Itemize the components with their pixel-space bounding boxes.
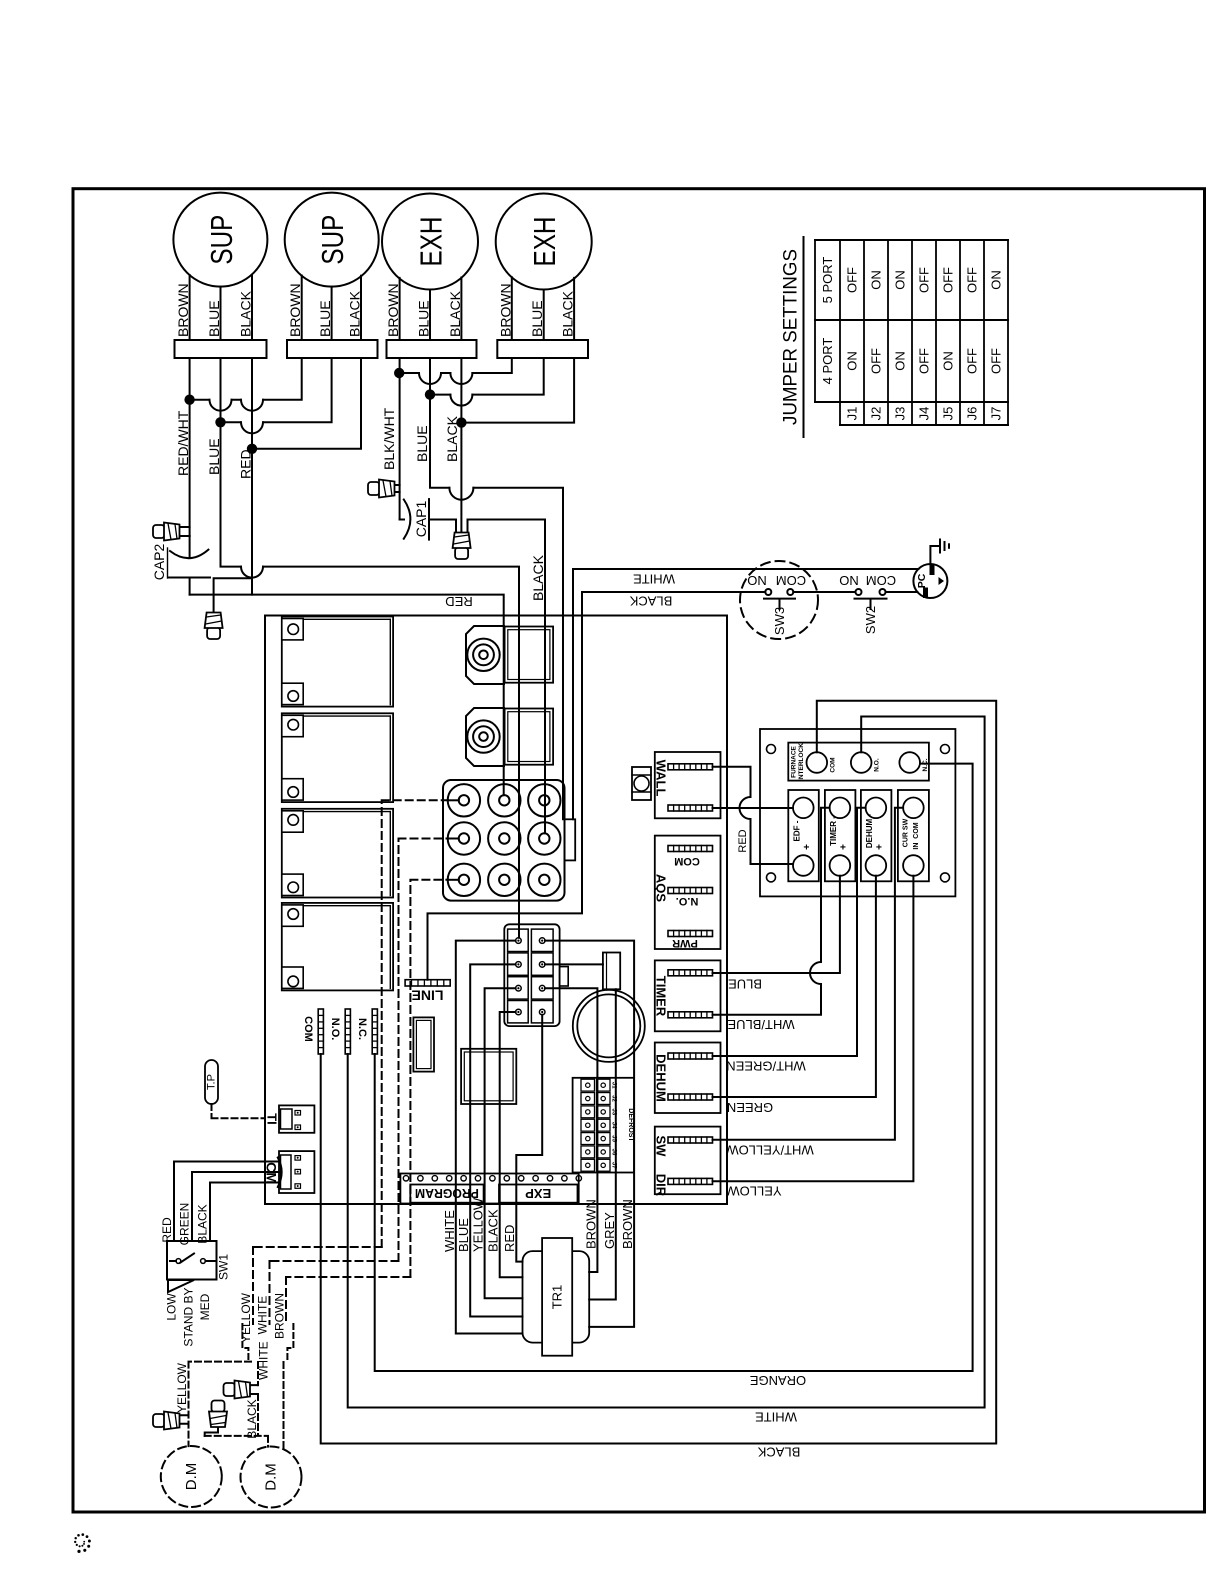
svg-text:INTERLOCK: INTERLOCK: [798, 743, 805, 781]
svg-text:COM: COM: [776, 573, 806, 588]
svg-text:DIR: DIR: [654, 1174, 669, 1197]
labels RED GREEN BLACK: [160, 1203, 210, 1246]
svg-text:RED: RED: [445, 594, 472, 609]
svg-text:J1: J1: [845, 407, 860, 421]
svg-text:BLUE: BLUE: [317, 300, 333, 337]
capacitor CAP2: [151, 536, 210, 580]
svg-text:ON: ON: [893, 270, 908, 290]
wire CUR SW COM to DIR connector YELLOW: [713, 876, 914, 1199]
connector WALL: [654, 752, 721, 818]
svg-text:BLACK: BLACK: [560, 290, 576, 337]
svg-text:J6: J6: [965, 407, 980, 421]
motor EXH1 (EXH): [382, 194, 478, 290]
svg-text:BLACK: BLACK: [196, 1204, 210, 1243]
svg-text:JUMPER SETTINGS: JUMPER SETTINGS: [781, 249, 802, 425]
connector AQS: [654, 836, 721, 949]
wire COM loop BLACK: [321, 701, 997, 1460]
wire nut on BLK/WHT: [368, 480, 400, 498]
svg-text:SW: SW: [654, 1136, 669, 1158]
svg-text:WHT/BLUE: WHT/BLUE: [727, 1017, 795, 1032]
wire nut 3-way below CAP1: [453, 533, 471, 560]
terminal strip DEHUM: [861, 790, 892, 881]
wire SUP blue link with junction: [215, 358, 331, 433]
wire pin1-1 WHITE to TR1: [456, 941, 523, 1334]
svg-text:BLUE: BLUE: [529, 300, 545, 337]
svg-text:TI: TI: [265, 1113, 280, 1125]
wires motor 4 to connector bar: [512, 277, 574, 340]
svg-text:IN COM: IN COM: [913, 822, 920, 849]
svg-text:BLACK: BLACK: [447, 290, 463, 337]
svg-text:BLACK: BLACK: [629, 594, 672, 609]
svg-text:WHITE: WHITE: [257, 1341, 271, 1380]
dashed link relay K4 to terminal row3: [410, 880, 458, 1277]
svg-text:BLACK: BLACK: [347, 290, 363, 337]
svg-text:COM: COM: [830, 757, 837, 772]
damper motor D.M 1: [161, 1446, 222, 1507]
svg-text:STAND BY: STAND BY: [182, 1287, 196, 1346]
svg-text:BROWN: BROWN: [620, 1199, 635, 1249]
RCA jack J2: [466, 708, 504, 766]
svg-text:EXH: EXH: [527, 217, 562, 267]
wire RED SUP vertical: [251, 449, 253, 595]
svg-text:NO: NO: [747, 573, 767, 588]
wire CM pin1 RED to SW1: [174, 1162, 279, 1242]
svg-text:PC: PC: [916, 573, 928, 588]
svg-text:GREEN: GREEN: [178, 1203, 192, 1246]
wire BLUE EXH horizontal with dip: [430, 395, 563, 820]
svg-text:BROWN: BROWN: [497, 283, 513, 337]
svg-text:BLACK: BLACK: [757, 1445, 800, 1460]
labels LOW STAND BY MED: [165, 1287, 213, 1346]
connector bar motor 4: [497, 340, 588, 358]
wire BLUE SUP to 8-pin connector: [221, 422, 520, 938]
wire EXH brown link with junction: [394, 358, 512, 384]
svg-text:YELLOW: YELLOW: [239, 1292, 253, 1343]
wire SUP brown link with junction: [184, 358, 301, 411]
svg-text:BLACK: BLACK: [530, 554, 546, 601]
wire pin1-2 BROWN to TR1: [545, 941, 634, 1327]
svg-text:OFF: OFF: [965, 348, 980, 374]
svg-text:BLACK: BLACK: [444, 415, 460, 462]
wires motor 2 to connector bar: [302, 276, 361, 341]
svg-text:BROWN: BROWN: [175, 283, 191, 337]
svg-text:D.M: D.M: [183, 1463, 200, 1491]
svg-text:DEHUM: DEHUM: [654, 1054, 669, 1102]
wire CM pin2 GREEN to SW1: [192, 1172, 279, 1241]
wire WALL pin1 to EDF plus with hop: [713, 767, 793, 864]
svg-text:N.O.: N.O.: [676, 895, 699, 907]
dashed connector outline: [242, 1324, 293, 1362]
wire CM pin3 BLACK to SW1: [210, 1183, 279, 1242]
terminal block 3x3: [443, 780, 565, 901]
component relay box double square: [461, 1049, 516, 1104]
relay K1: [282, 617, 393, 707]
component fuse block: [413, 1017, 434, 1071]
svg-text:FURNACE: FURNACE: [791, 745, 798, 777]
svg-text:BLACK: BLACK: [486, 1209, 501, 1252]
wire pin3-1 YELLOW to TR1: [485, 988, 523, 1298]
svg-text:TR1: TR1: [550, 1285, 565, 1310]
svg-text:COM: COM: [866, 573, 896, 588]
power cord plug PC: [913, 564, 947, 598]
terminal strip TIMER: [825, 790, 856, 881]
jack housing square 1: [505, 627, 553, 683]
svg-text:J3: J3: [893, 407, 908, 421]
connector 8-pin: [504, 924, 559, 1026]
svg-text:RED: RED: [160, 1217, 174, 1243]
svg-text:BLACK: BLACK: [245, 1399, 259, 1438]
terminal board mounting holes: [767, 745, 950, 882]
svg-text:OFF: OFF: [917, 348, 932, 374]
pin strip COM: [302, 1009, 323, 1054]
labels wire colors above TR1 right: [583, 1199, 635, 1249]
svg-text:DEFROST: DEFROST: [627, 1108, 634, 1142]
connector CM: [264, 1151, 315, 1193]
svg-text:ORANGE: ORANGE: [750, 1373, 807, 1388]
border frame: [73, 189, 1205, 1512]
jack housing square 2: [505, 709, 553, 765]
svg-text:J2: J2: [869, 407, 884, 421]
wire CAP2 to RED node: [189, 578, 191, 595]
wire N.C. loop ORANGE: [375, 764, 973, 1388]
DIP switch block DEFROST: [573, 1078, 635, 1173]
svg-text:PWR: PWR: [672, 937, 698, 949]
svg-text:SW1: SW1: [217, 1254, 231, 1280]
svg-text:+: +: [874, 844, 885, 850]
svg-text:ON: ON: [869, 270, 884, 290]
svg-text:BLUE: BLUE: [456, 1218, 471, 1252]
relay K4: [282, 903, 393, 991]
capacitor CAP1: [400, 499, 429, 539]
svg-text:5 PORT: 5 PORT: [820, 257, 835, 304]
svg-text:BROWN: BROWN: [385, 283, 401, 337]
svg-text:J7: J7: [989, 407, 1004, 421]
terminal block side tab: [565, 819, 576, 860]
svg-text:COM: COM: [302, 1016, 314, 1042]
wire EXH blue link with junction: [425, 358, 544, 406]
svg-text:BLK/WHT: BLK/WHT: [381, 407, 397, 470]
svg-text:OFF: OFF: [845, 267, 860, 293]
svg-text:BLACK: BLACK: [238, 290, 254, 337]
svg-text:OFF: OFF: [917, 267, 932, 293]
LED indicator next to WALL: [632, 767, 651, 800]
svg-text:RED: RED: [502, 1225, 517, 1252]
svg-text:N.C.: N.C.: [922, 758, 929, 771]
svg-text:N.O.: N.O.: [874, 758, 881, 772]
svg-text:ON: ON: [893, 351, 908, 371]
svg-text:EXH: EXH: [414, 217, 449, 267]
component T.P: [205, 1060, 218, 1104]
svg-text:RED: RED: [737, 829, 749, 852]
connector DEHUM: [654, 1043, 721, 1114]
wire TIMER plus to TIMER connector BLUE: [713, 876, 840, 992]
svg-text:DEHUM -: DEHUM -: [865, 814, 874, 849]
connector bar motor 3: [387, 340, 477, 358]
wire DEHUM minus to DEHUM connector WHT/GREEN: [713, 808, 866, 1074]
labels wire colors above TR1 left: [442, 1197, 517, 1252]
motor SUP1 (SUP): [173, 193, 267, 287]
svg-text:YELLOW: YELLOW: [727, 1184, 782, 1199]
svg-text:BLUE: BLUE: [728, 977, 762, 992]
wire RED/WHT down to wire nut: [189, 400, 191, 536]
wire BLACK line through switches: [428, 592, 766, 980]
wire pin3-2 BROWN to TR1: [545, 988, 597, 1272]
wire WALL pin2 to EDF minus: [713, 807, 793, 809]
svg-text:LINE: LINE: [412, 988, 444, 1004]
svg-text:WHT/YELLOW: WHT/YELLOW: [726, 1143, 814, 1158]
terminal strip EDF: [788, 790, 819, 881]
switch SW3 contacts NO COM: [747, 573, 806, 635]
terminal strip FURNACE INTERLOCK: [788, 743, 929, 781]
jumper settings title: [781, 237, 804, 437]
wire CUR SW IN to SW connector WHT/YELLOW: [713, 808, 904, 1158]
connector TI: [265, 1105, 315, 1132]
RCA jack J1: [466, 626, 504, 684]
wire SW2 COM to plug: [886, 591, 918, 593]
svg-text:+: +: [838, 844, 849, 850]
svg-text:N.C.: N.C.: [356, 1018, 368, 1040]
svg-text:ON: ON: [845, 351, 860, 371]
svg-text:GREY: GREY: [602, 1212, 617, 1249]
component small rect: [603, 953, 620, 990]
wire pin2-1 BLUE to TR1: [470, 964, 522, 1316]
svg-text:YELLOW: YELLOW: [471, 1197, 486, 1252]
wire RED horizontal to board: [190, 594, 504, 795]
wire EXH black link with junction: [456, 358, 574, 428]
connector strip PROGRAM EXP: [400, 1174, 581, 1204]
relay K3: [282, 809, 393, 898]
wires motor 1 to connector bar: [190, 275, 252, 340]
wire SW3 COM to SW2 NO: [793, 591, 855, 593]
svg-text:SW3: SW3: [772, 607, 787, 635]
buzzer circle: [573, 990, 645, 1062]
svg-text:SUP: SUP: [315, 215, 350, 265]
wire pin4-2 RED to TR1: [516, 1015, 542, 1262]
wire nut stub cap: [205, 1401, 227, 1436]
dashed wire BLACK to D.M 2: [205, 1394, 268, 1447]
dashed wire YELLOW to D.M 1: [175, 1362, 251, 1447]
control board outline: [265, 616, 727, 1205]
wires motor 3 to connector bar: [400, 278, 462, 341]
wire BLACK into board to terminal grid: [530, 520, 546, 834]
wire BLK/WHT down to wire nut: [399, 373, 401, 520]
svg-text:BROWN: BROWN: [273, 1293, 287, 1339]
wire BLACK EXH down to 3-way nut: [460, 423, 462, 531]
svg-text:OFF: OFF: [941, 267, 956, 293]
svg-text:TIMER -: TIMER -: [829, 816, 838, 846]
wire GREY small rect to TR1: [589, 989, 616, 1299]
svg-text:EXP: EXP: [525, 1186, 551, 1201]
dashed link relay K3 to terminal row2: [399, 839, 459, 1262]
svg-text:BLUE: BLUE: [414, 425, 430, 462]
svg-text:GREEN: GREEN: [727, 1100, 773, 1115]
pin strip N.O.: [329, 1009, 350, 1054]
wire SUP black link with junction: [247, 358, 361, 454]
svg-text:WHITE: WHITE: [256, 1296, 270, 1335]
svg-text:YELLOW: YELLOW: [175, 1362, 189, 1413]
wire WHITE neutral to plug: [573, 569, 918, 819]
dashed wire WHITE to nut: [257, 1341, 271, 1385]
svg-text:OFF: OFF: [989, 348, 1004, 374]
svg-text:T.P: T.P: [206, 1074, 218, 1090]
wire TIMER minus to TIMER connector WHT/BLUE with hop: [713, 808, 830, 1032]
dashed wire WHITE from relay link: [256, 1261, 399, 1334]
svg-text:N.O.: N.O.: [329, 1018, 341, 1041]
connector 8-pin side tab: [560, 967, 569, 986]
svg-text:BROWN: BROWN: [287, 283, 303, 337]
wire nut on YELLOW: [153, 1412, 189, 1430]
labels BROWN BLUE BLACK motor 4: [497, 283, 575, 337]
svg-text:WHITE: WHITE: [755, 1410, 797, 1425]
motor EXH2 (EXH): [496, 194, 592, 290]
svg-text:CAP1: CAP1: [413, 501, 429, 538]
dashed link relay K2 to terminal row1: [382, 800, 459, 1247]
ground symbol: [930, 540, 949, 565]
jumper settings table: [815, 240, 1008, 425]
svg-text:AQS: AQS: [654, 874, 669, 903]
connector bar motor 1: [175, 340, 267, 358]
connector bar motor 2: [287, 340, 378, 358]
svg-text:CUR SW: CUR SW: [902, 818, 909, 847]
svg-text:WHITE: WHITE: [633, 572, 675, 587]
relay K2: [282, 713, 393, 802]
svg-text:ON: ON: [989, 270, 1004, 290]
wire N.O. loop WHITE: [348, 717, 985, 1425]
svg-text:BROWN: BROWN: [583, 1199, 598, 1249]
svg-text:J5: J5: [941, 407, 956, 421]
svg-text:EDF -: EDF -: [792, 820, 801, 841]
svg-text:SUP: SUP: [204, 215, 239, 265]
damper motor D.M 2: [241, 1447, 302, 1508]
labels BROWN BLUE BLACK motor 1: [175, 283, 253, 337]
labels BROWN BLUE BLACK motor 2: [287, 283, 362, 337]
svg-text:+: +: [802, 844, 813, 850]
svg-text:MED: MED: [198, 1293, 212, 1320]
svg-text:TIMER: TIMER: [654, 976, 669, 1017]
svg-text:SW2: SW2: [863, 606, 878, 634]
transformer TR1: [523, 1238, 590, 1356]
svg-text:BLUE: BLUE: [206, 300, 222, 337]
wire CAP1 to BLACK vertical: [429, 520, 545, 532]
svg-text:J4: J4: [917, 407, 932, 421]
wire nut stub end cap: [205, 613, 223, 640]
dashed wire BROWN to D.M 2: [283, 1362, 285, 1449]
dashed wire BROWN from relay link: [273, 1277, 411, 1339]
svg-text:CAP2: CAP2: [151, 544, 167, 581]
svg-text:WALL: WALL: [654, 760, 669, 797]
switch SW2 contacts NO COM: [839, 573, 896, 634]
motor SUP2 (SUP): [285, 193, 379, 287]
switch SW3 dashed enclosure: [740, 561, 818, 639]
wire nut on RED/WHT: [153, 523, 190, 541]
svg-text:BLUE: BLUE: [416, 300, 432, 337]
terminal board outline: [760, 729, 955, 896]
wire nut WHITE to BLACK: [224, 1381, 259, 1399]
svg-text:D.M: D.M: [263, 1463, 280, 1491]
connector TIMER: [654, 960, 721, 1031]
connector LINE: [405, 980, 450, 1004]
logo dotted spiral: [74, 1533, 91, 1553]
pin strip N.C.: [356, 1009, 377, 1054]
svg-text:LOW: LOW: [165, 1293, 179, 1321]
wire pin4-1 BLACK to TR1: [500, 1012, 523, 1277]
svg-text:ON: ON: [941, 351, 956, 371]
svg-text:WHT/GREEN: WHT/GREEN: [726, 1059, 805, 1074]
svg-text:NO: NO: [839, 573, 859, 588]
svg-text:OFF: OFF: [869, 348, 884, 374]
svg-text:WHITE: WHITE: [442, 1210, 457, 1252]
connector SW DIR: [654, 1127, 721, 1197]
svg-text:COM: COM: [674, 855, 700, 867]
wire pin2-2 to small rect: [545, 963, 603, 965]
wire stub nut tap to RED vertical: [214, 578, 252, 611]
terminal strip CUR SW: [898, 790, 929, 881]
labels BROWN BLUE BLACK motor 3: [385, 283, 463, 337]
switch SW1: [167, 1241, 231, 1292]
svg-text:4 PORT: 4 PORT: [820, 338, 835, 385]
svg-text:OFF: OFF: [965, 267, 980, 293]
dashed wire YELLOW from relay link: [239, 1247, 382, 1343]
dashed wire T.P to TI: [212, 1104, 265, 1118]
wire DEHUM plus to DEHUM connector GREEN: [713, 876, 876, 1115]
